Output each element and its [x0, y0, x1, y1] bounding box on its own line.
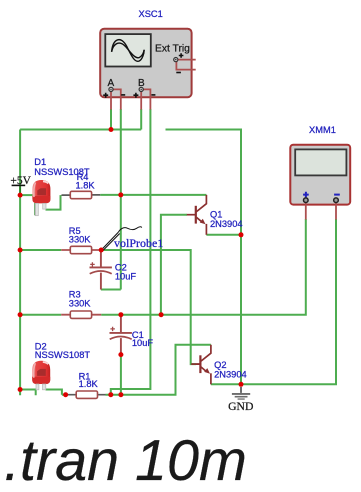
svg-text:Ext Trig: Ext Trig — [155, 43, 190, 54]
svg-text:GND: GND — [228, 400, 253, 413]
svg-text:NSSWS108T: NSSWS108T — [35, 350, 91, 360]
svg-text:XMM1: XMM1 — [309, 125, 336, 135]
svg-text:Q2: Q2 — [214, 360, 226, 370]
svg-text:D1: D1 — [34, 157, 46, 167]
svg-text:330K: 330K — [69, 235, 92, 245]
svg-text:volProbe1: volProbe1 — [114, 236, 163, 250]
svg-text:1.8K: 1.8K — [76, 180, 96, 190]
svg-text:10uF: 10uF — [132, 338, 154, 348]
svg-text:1.8K: 1.8K — [79, 379, 99, 389]
svg-text:2N3904: 2N3904 — [210, 219, 243, 229]
svg-text:330K: 330K — [69, 298, 92, 308]
svg-text:10uF: 10uF — [115, 272, 137, 282]
svg-text:+5V: +5V — [10, 175, 31, 187]
svg-text:.tran 10m: .tran 10m — [4, 429, 247, 492]
svg-text:2N3904: 2N3904 — [214, 370, 247, 380]
svg-text:XSC1: XSC1 — [139, 9, 163, 19]
